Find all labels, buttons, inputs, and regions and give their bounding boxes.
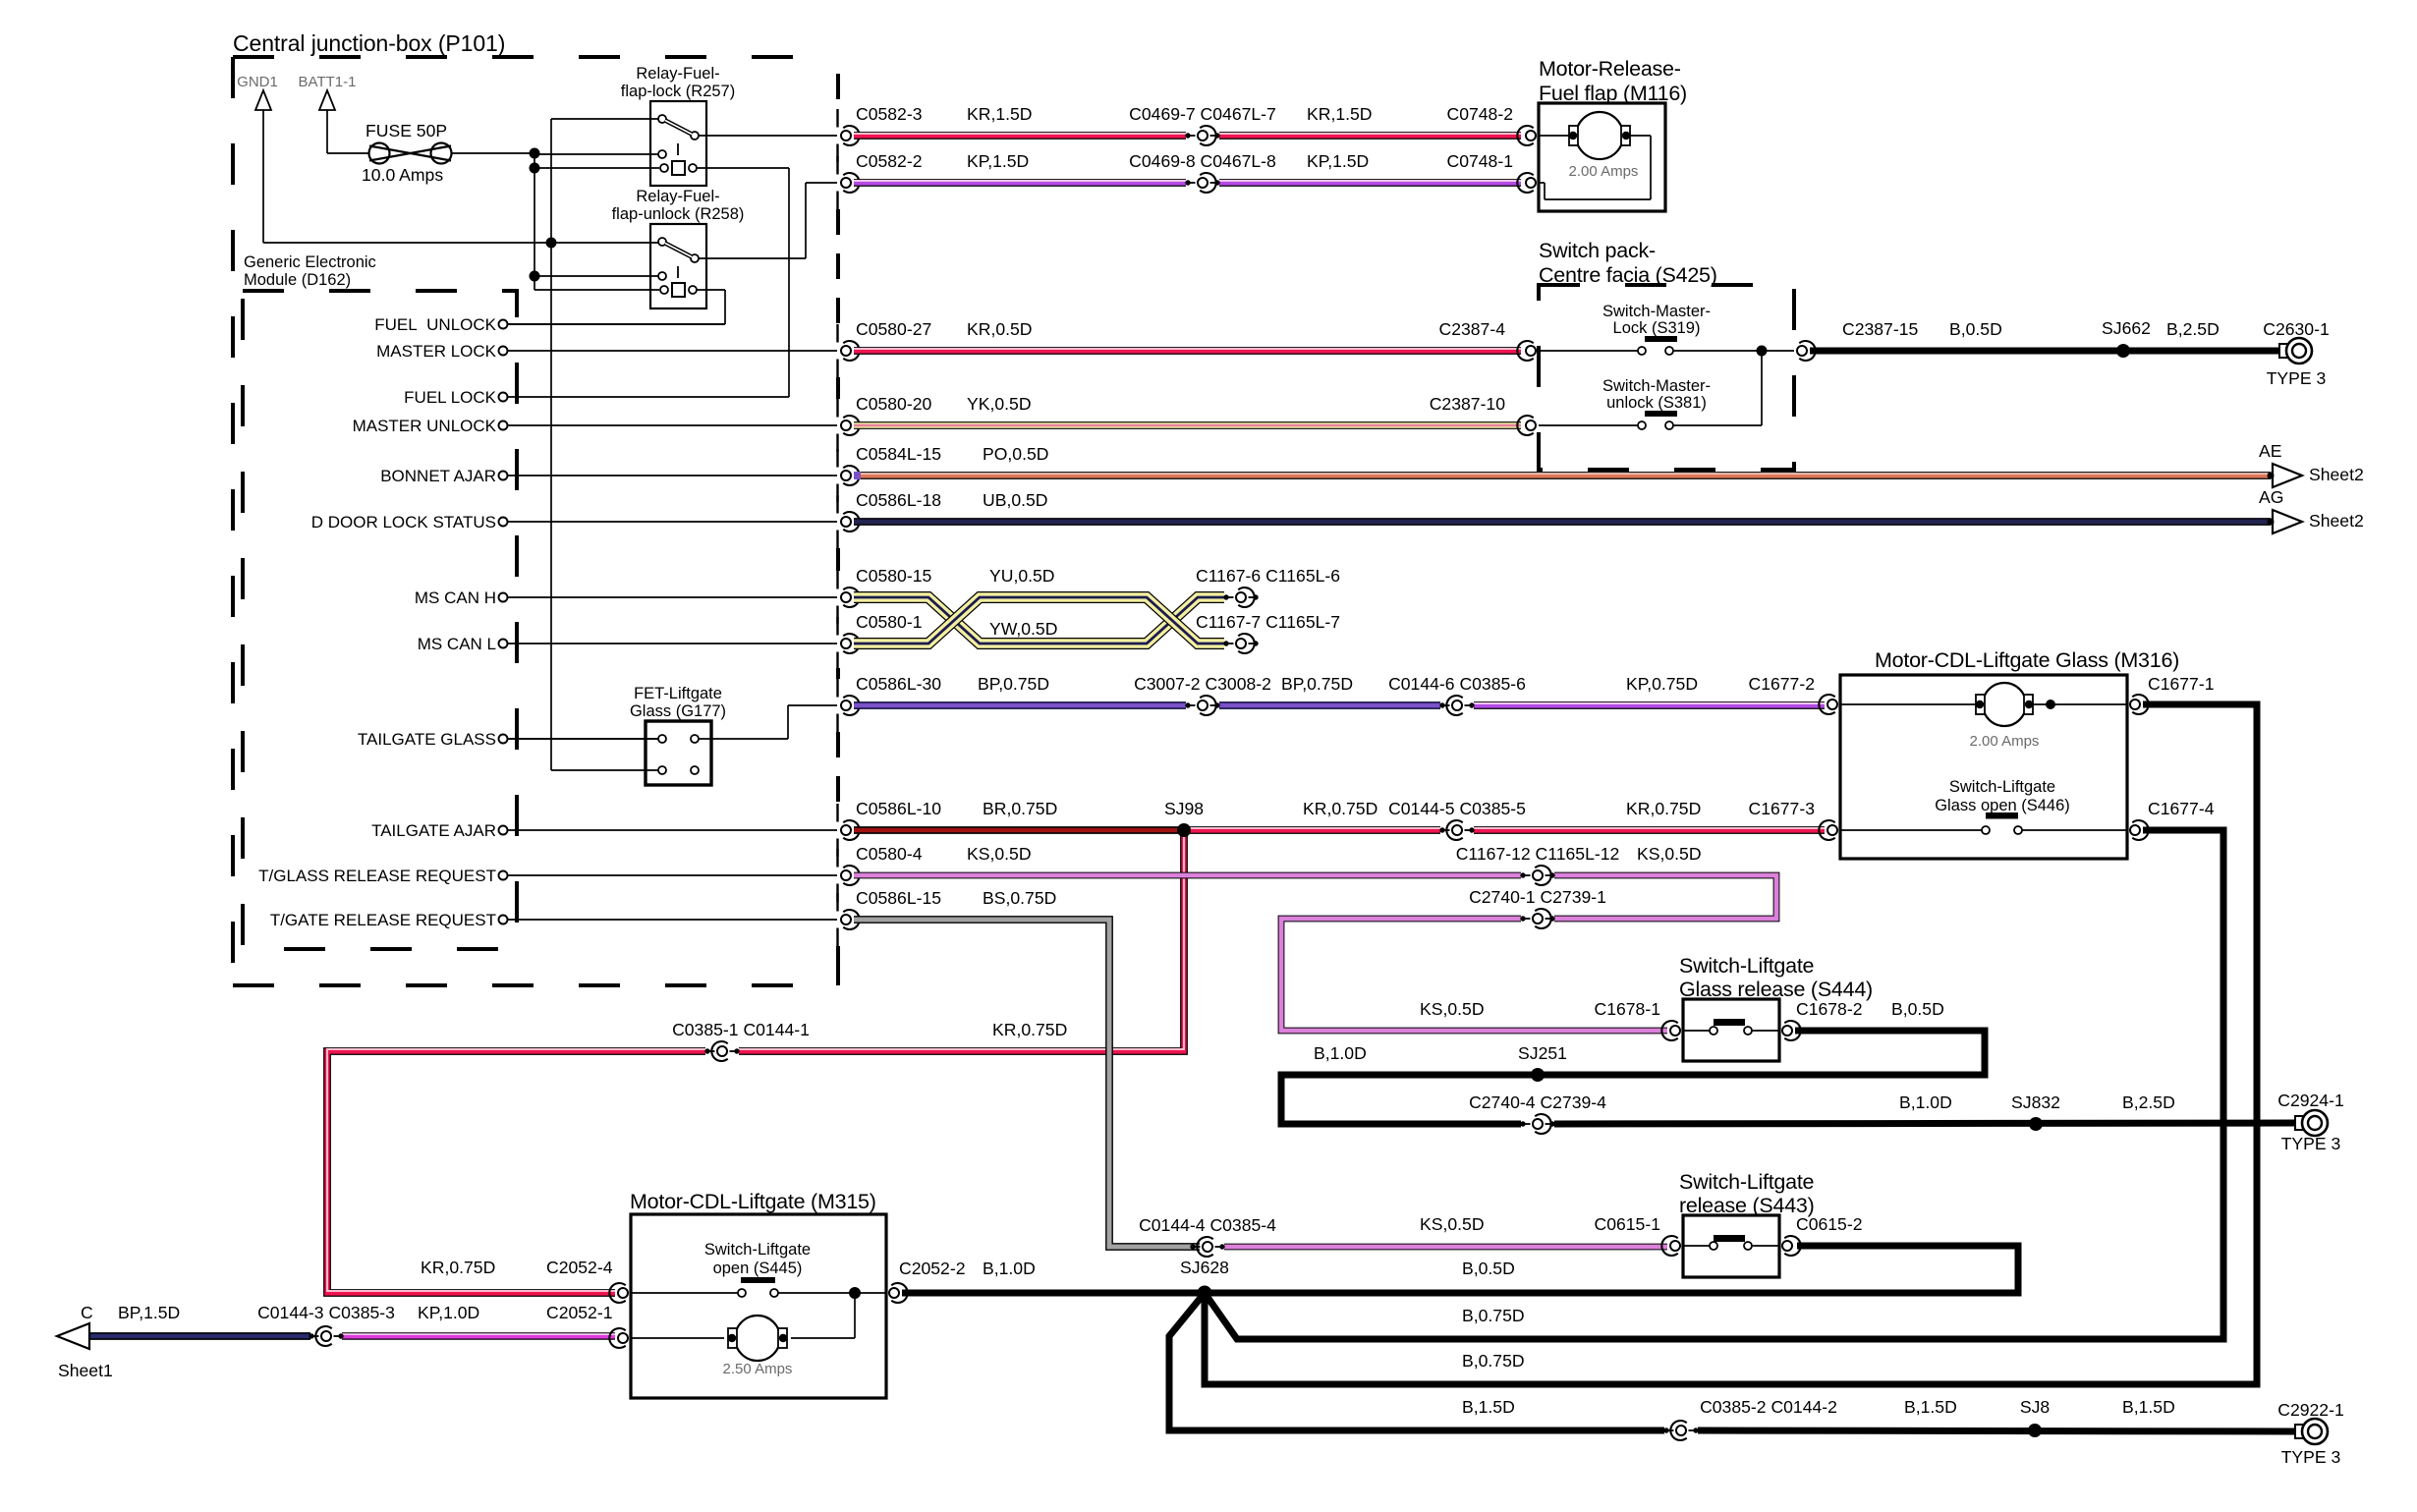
svg-text:Motor-CDL-Liftgate Glass (M316: Motor-CDL-Liftgate Glass (M316) [1875,648,2179,672]
svg-text:C2387-15: C2387-15 [1842,319,1918,339]
svg-text:SJ662: SJ662 [2102,318,2151,338]
svg-text:D DOOR LOCK STATUS: D DOOR LOCK STATUS [311,513,496,532]
svg-text:T/GATE RELEASE REQUEST: T/GATE RELEASE REQUEST [270,911,496,929]
svg-text:KR,1.5D: KR,1.5D [967,104,1033,124]
svg-text:Switch-Master-: Switch-Master- [1602,303,1711,320]
svg-text:Lock (S319): Lock (S319) [1613,319,1701,337]
svg-text:C0580-1: C0580-1 [856,612,923,632]
svg-text:KP,1.5D: KP,1.5D [1307,151,1369,171]
svg-text:KS,0.5D: KS,0.5D [967,844,1032,864]
svg-text:C0748-2: C0748-2 [1447,104,1514,124]
svg-text:C2052-1: C2052-1 [546,1303,613,1322]
svg-text:C0748-1: C0748-1 [1447,151,1514,171]
svg-text:Sheet2: Sheet2 [2309,511,2364,531]
svg-text:KR,0.75D: KR,0.75D [1303,799,1377,818]
svg-text:C2387-10: C2387-10 [1430,394,1505,414]
svg-text:Switch pack-: Switch pack- [1539,239,1656,262]
svg-text:YU,0.5D: YU,0.5D [989,566,1055,586]
svg-text:KR,1.5D: KR,1.5D [1307,104,1373,124]
svg-text:C0615-2: C0615-2 [1796,1214,1863,1234]
svg-text:Switch-Liftgate: Switch-Liftgate [704,1241,811,1259]
svg-text:Switch-Liftgate: Switch-Liftgate [1949,778,2055,796]
svg-text:B,2.5D: B,2.5D [2166,319,2220,339]
svg-text:B,1.5D: B,1.5D [2122,1397,2175,1417]
svg-text:C0582-3: C0582-3 [856,104,923,124]
svg-text:FUEL LOCK: FUEL LOCK [404,388,497,407]
svg-text:KR,0.5D: KR,0.5D [967,319,1033,339]
svg-text:B,1.0D: B,1.0D [1899,1092,1952,1112]
svg-text:C1677-4: C1677-4 [2148,799,2215,818]
svg-text:FUSE 50P: FUSE 50P [365,121,447,140]
svg-text:Glass (G177): Glass (G177) [630,702,726,720]
svg-text:B,0.75D: B,0.75D [1462,1351,1525,1371]
svg-text:C0586L-10: C0586L-10 [856,799,941,818]
svg-text:KS,0.5D: KS,0.5D [1420,1214,1485,1234]
svg-text:C0469-7 C0467L-7: C0469-7 C0467L-7 [1129,104,1276,124]
svg-text:unlock (S381): unlock (S381) [1606,394,1707,412]
svg-text:FET-Liftgate: FET-Liftgate [634,685,722,702]
svg-text:Relay-Fuel-: Relay-Fuel- [636,188,719,205]
svg-text:SJ98: SJ98 [1164,799,1204,818]
svg-text:C1167-7 C1165L-7: C1167-7 C1165L-7 [1196,612,1340,632]
svg-text:AE: AE [2259,441,2281,461]
svg-text:C2630-1: C2630-1 [2263,319,2330,339]
svg-text:B,0.75D: B,0.75D [1462,1306,1525,1325]
svg-text:C0580-27: C0580-27 [856,319,931,339]
svg-text:flap-unlock (R258): flap-unlock (R258) [612,205,745,223]
svg-text:B,2.5D: B,2.5D [2122,1092,2175,1112]
svg-text:C2924-1: C2924-1 [2277,1091,2344,1110]
svg-text:KR,0.75D: KR,0.75D [1626,799,1701,818]
svg-text:C0144-5 C0385-5: C0144-5 C0385-5 [1388,799,1526,818]
svg-text:B,0.5D: B,0.5D [1949,319,2002,339]
svg-text:C0582-2: C0582-2 [856,151,923,171]
svg-text:KP,0.75D: KP,0.75D [1626,674,1698,694]
svg-text:2.50 Amps: 2.50 Amps [723,1361,793,1377]
svg-text:C1677-2: C1677-2 [1749,674,1816,694]
svg-text:BR,0.75D: BR,0.75D [983,799,1057,818]
svg-text:Motor-CDL-Liftgate (M315): Motor-CDL-Liftgate (M315) [630,1190,876,1213]
svg-text:C0580-4: C0580-4 [856,844,923,864]
svg-text:C2052-2: C2052-2 [899,1259,966,1278]
svg-text:MASTER UNLOCK: MASTER UNLOCK [353,417,497,435]
svg-text:C0385-1 C0144-1: C0385-1 C0144-1 [672,1020,810,1039]
svg-text:C1677-1: C1677-1 [2148,674,2215,694]
svg-text:Glass open (S446): Glass open (S446) [1935,797,2070,814]
svg-text:B,1.0D: B,1.0D [1314,1043,1367,1063]
svg-text:Generic Electronic: Generic Electronic [244,253,376,271]
svg-text:Switch-Liftgate: Switch-Liftgate [1679,954,1814,978]
svg-text:C2922-1: C2922-1 [2277,1400,2344,1420]
svg-text:KP,1.5D: KP,1.5D [967,151,1029,171]
svg-text:BS,0.75D: BS,0.75D [983,888,1056,908]
svg-text:Central junction-box (P101): Central junction-box (P101) [233,30,505,56]
svg-text:Motor-Release-: Motor-Release- [1539,57,1681,81]
svg-text:T/GLASS RELEASE REQUEST: T/GLASS RELEASE REQUEST [258,867,496,885]
svg-text:C0144-6 C0385-6: C0144-6 C0385-6 [1388,674,1526,694]
svg-text:Module (D162): Module (D162) [244,271,351,289]
svg-text:YW,0.5D: YW,0.5D [989,619,1057,639]
svg-text:C2387-4: C2387-4 [1439,319,1506,339]
svg-text:BP,0.75D: BP,0.75D [1281,674,1353,694]
svg-text:Sheet1: Sheet1 [58,1361,113,1380]
svg-text:2.00 Amps: 2.00 Amps [1970,733,2040,750]
svg-text:C0580-15: C0580-15 [856,566,931,586]
svg-text:C0586L-15: C0586L-15 [856,888,941,908]
svg-text:GND1: GND1 [237,74,278,90]
svg-text:C0586L-30: C0586L-30 [856,674,941,694]
svg-text:C2740-1 C2739-1: C2740-1 C2739-1 [1469,887,1606,907]
svg-text:C1167-12 C1165L-12: C1167-12 C1165L-12 [1456,844,1620,864]
svg-text:SJ251: SJ251 [1518,1043,1567,1063]
svg-text:C0615-1: C0615-1 [1595,1214,1661,1234]
svg-text:C0586L-18: C0586L-18 [856,490,941,510]
svg-text:KS,0.5D: KS,0.5D [1637,844,1702,864]
svg-text:C2052-4: C2052-4 [546,1258,613,1277]
svg-text:C1678-2: C1678-2 [1796,999,1863,1019]
svg-text:Fuel flap (M116): Fuel flap (M116) [1539,82,1687,105]
svg-text:KR,0.75D: KR,0.75D [992,1020,1067,1039]
svg-text:AG: AG [2259,487,2283,507]
svg-text:TAILGATE AJAR: TAILGATE AJAR [371,821,496,840]
svg-text:KS,0.5D: KS,0.5D [1420,999,1485,1019]
svg-text:B,1.0D: B,1.0D [983,1259,1036,1278]
svg-text:BP,1.5D: BP,1.5D [118,1303,180,1322]
svg-text:KR,0.75D: KR,0.75D [421,1258,495,1277]
svg-text:C0580-20: C0580-20 [856,394,931,414]
svg-text:C: C [81,1303,93,1322]
svg-text:Centre facia (S425): Centre facia (S425) [1539,263,1717,287]
svg-text:Switch-Master-: Switch-Master- [1602,377,1711,395]
svg-text:FUEL UNLOCK: FUEL UNLOCK [374,315,496,334]
svg-text:Glass release (S444): Glass release (S444) [1679,978,1873,1001]
svg-text:TYPE 3: TYPE 3 [2281,1134,2341,1153]
svg-text:C0584L-15: C0584L-15 [856,444,941,464]
svg-text:B,1.5D: B,1.5D [1462,1397,1515,1417]
svg-text:C1677-3: C1677-3 [1749,799,1816,818]
svg-text:SJ832: SJ832 [2011,1092,2060,1112]
svg-text:Sheet2: Sheet2 [2309,465,2364,484]
svg-text:C0144-4 C0385-4: C0144-4 C0385-4 [1139,1215,1276,1235]
svg-text:C1167-6 C1165L-6: C1167-6 C1165L-6 [1196,566,1340,586]
svg-text:C0144-3 C0385-3: C0144-3 C0385-3 [257,1303,395,1322]
svg-text:SJ8: SJ8 [2020,1397,2051,1417]
svg-text:TYPE 3: TYPE 3 [2281,1447,2341,1467]
svg-text:PO,0.5D: PO,0.5D [983,444,1048,464]
svg-text:SJ628: SJ628 [1180,1258,1229,1277]
svg-text:open (S445): open (S445) [713,1260,803,1277]
svg-text:C0385-2 C0144-2: C0385-2 C0144-2 [1700,1397,1837,1417]
svg-text:C0469-8 C0467L-8: C0469-8 C0467L-8 [1129,151,1276,171]
svg-text:BONNET AJAR: BONNET AJAR [380,467,496,485]
svg-text:BP,0.75D: BP,0.75D [978,674,1049,694]
svg-text:TAILGATE GLASS: TAILGATE GLASS [358,730,496,749]
svg-text:TYPE 3: TYPE 3 [2267,368,2327,388]
svg-text:MASTER LOCK: MASTER LOCK [376,342,497,361]
svg-text:flap-lock (R257): flap-lock (R257) [621,83,735,100]
svg-text:B,0.5D: B,0.5D [1462,1259,1515,1278]
svg-text:YK,0.5D: YK,0.5D [967,394,1032,414]
svg-text:C2740-4 C2739-4: C2740-4 C2739-4 [1469,1092,1606,1112]
svg-text:release (S443): release (S443) [1679,1194,1815,1217]
svg-text:B,0.5D: B,0.5D [1891,999,1944,1019]
svg-text:C1678-1: C1678-1 [1595,999,1661,1019]
svg-text:Relay-Fuel-: Relay-Fuel- [636,65,719,83]
svg-text:MS CAN L: MS CAN L [418,635,496,653]
svg-text:10.0 Amps: 10.0 Amps [362,165,443,185]
svg-text:KP,1.0D: KP,1.0D [418,1303,479,1322]
svg-text:B,1.5D: B,1.5D [1904,1397,1957,1417]
svg-text:C3007-2 C3008-2: C3007-2 C3008-2 [1134,674,1271,694]
svg-text:UB,0.5D: UB,0.5D [983,490,1048,510]
svg-text:BATT1-1: BATT1-1 [299,74,357,90]
svg-text:MS CAN H: MS CAN H [415,588,496,607]
svg-text:Switch-Liftgate: Switch-Liftgate [1679,1170,1814,1194]
svg-text:2.00 Amps: 2.00 Amps [1569,163,1639,180]
